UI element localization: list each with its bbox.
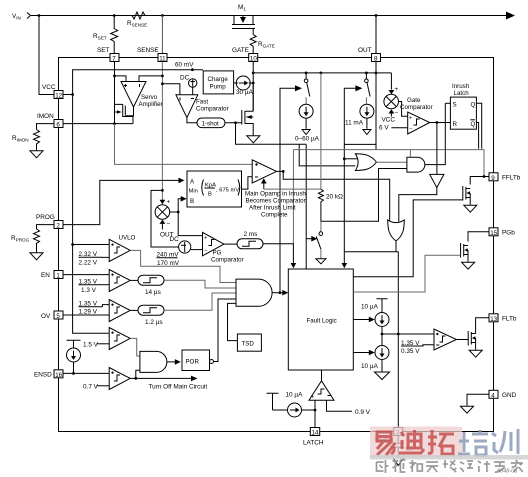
svg-text:+: + <box>204 236 207 242</box>
ground RPROG <box>30 253 43 260</box>
wire SET pin internal drop <box>114 62 116 124</box>
svg-text:PG: PG <box>213 249 222 256</box>
svg-text:OUT: OUT <box>358 47 372 54</box>
svg-text:Fast: Fast <box>196 99 208 106</box>
wire gate comp output to latch R <box>430 122 451 124</box>
ground arrow below CT <box>393 458 404 466</box>
pin 7 SET <box>110 54 119 62</box>
svg-text:ENSD: ENSD <box>34 372 52 379</box>
svg-text:8: 8 <box>374 56 378 63</box>
wire fault logic arrow to 10uA source <box>353 319 369 321</box>
transistor FFLTb pulldown <box>463 186 470 205</box>
wire OUT pin 8 top <box>375 16 377 54</box>
wire and2 output up to latch S <box>425 103 445 164</box>
svg-text:LATCH: LATCH <box>303 440 324 447</box>
svg-text:10 µA: 10 µA <box>361 363 379 370</box>
op-amp UVLO comparator <box>109 235 135 262</box>
wire fault logic arrow to 10uA lower <box>353 352 369 354</box>
svg-text:9: 9 <box>491 175 495 182</box>
svg-text:0.35 V: 0.35 V <box>401 348 420 355</box>
current source 0-60uA <box>299 104 313 118</box>
svg-text:15: 15 <box>490 230 497 237</box>
wire latch Q output down <box>476 103 481 148</box>
op-amp servo amplifier <box>121 82 163 109</box>
wire PROG pin to Min A input <box>63 180 180 224</box>
wire IMON pin to FET <box>63 123 115 125</box>
box fault logic <box>288 269 353 370</box>
svg-text:+: + <box>395 86 399 93</box>
multiplier current sense <box>155 199 170 229</box>
OR gate or2 pointing down <box>388 220 405 241</box>
node 10uA tbar upper <box>377 299 388 312</box>
wire VIN to VCC pin 12 <box>39 16 54 95</box>
op-amp fast comparator <box>176 95 229 118</box>
pin 15 PGb <box>489 228 498 236</box>
svg-text:OV: OV <box>41 313 51 320</box>
transistor internal sense FET <box>115 104 134 124</box>
svg-text:−: − <box>395 110 399 117</box>
svg-text:Comparator: Comparator <box>400 104 433 111</box>
svg-text:B: B <box>208 192 212 198</box>
wire servo right input from SENSE <box>139 76 162 82</box>
wire VCC pin junction <box>63 94 73 96</box>
svg-text:After Inrush Limit: After Inrush Limit <box>249 205 296 212</box>
wire control arrow into switch <box>280 88 296 292</box>
wire 1shot line down to switch control <box>236 123 307 145</box>
svg-text:2.22 V: 2.22 V <box>79 259 98 266</box>
transistor gate pulldown FET <box>242 83 253 136</box>
svg-text:0.7 V: 0.7 V <box>83 383 99 390</box>
switch TSD pull with open triangle <box>316 232 326 264</box>
svg-text:5: 5 <box>56 313 60 320</box>
svg-text:IMON: IMON <box>37 113 54 120</box>
ground FFLTb <box>464 205 477 212</box>
box charge pump <box>203 71 233 94</box>
svg-text:2: 2 <box>56 223 60 230</box>
pin 4 GND <box>489 390 498 398</box>
wire servo output to gate of internal FET <box>126 107 134 116</box>
svg-text:B: B <box>190 198 194 205</box>
svg-text:1-shot: 1-shot <box>202 121 219 128</box>
wire inrush ctl vertical to fault logic <box>305 144 307 269</box>
svg-text:Amplifier: Amplifier <box>139 101 163 108</box>
wire sense branch to DC 240mV source <box>151 190 179 247</box>
pin 11 SENSE <box>158 54 167 62</box>
wire fast comp left input from SENSE <box>162 84 180 95</box>
svg-text:11: 11 <box>159 56 166 63</box>
watermark char tuo <box>428 430 454 454</box>
svg-text:+: + <box>409 115 412 121</box>
wire small AND to POR arrow <box>167 361 176 363</box>
wire 11mA ctl tee to OUT vertical <box>344 143 375 145</box>
wire UVLO output to big AND in1 <box>130 250 236 282</box>
wire 20k line to TSD switch contact <box>320 221 322 232</box>
wire enable arrow into main opamp <box>263 183 265 190</box>
wire fault logic to FFLTb gate <box>353 200 463 277</box>
pin 8 OUT <box>372 54 381 62</box>
svg-text:SENSE: SENSE <box>137 47 159 54</box>
svg-text:UVLO: UVLO <box>119 235 136 242</box>
wire ENSD comp output and turnoff arrow <box>130 377 192 379</box>
svg-text:Servo: Servo <box>141 94 158 101</box>
svg-text:S: S <box>453 102 457 109</box>
wire EN pin to comparator <box>63 274 109 276</box>
box 1-shot <box>197 118 225 128</box>
svg-text:Comparator: Comparator <box>196 106 229 113</box>
wire PG comp to 2ms box <box>224 243 237 245</box>
svg-text:−: − <box>409 127 412 133</box>
svg-text:Gate: Gate <box>407 97 421 104</box>
wire OV pin to comparator minus <box>63 314 109 316</box>
wire OV comp to 1.2us <box>130 309 138 311</box>
current source ENSD pullup <box>67 348 81 362</box>
wire multiplier output to B input <box>170 199 203 236</box>
svg-text:Q: Q <box>471 102 476 109</box>
current source 10uA upper <box>375 313 389 327</box>
wire gray inrush-done line y149.5 <box>293 150 484 177</box>
svg-text:1.3 V: 1.3 V <box>81 287 97 294</box>
pin 16 ENSD <box>54 370 63 378</box>
wire timer vertical from or2 <box>397 252 399 428</box>
multiplier gate drive summer <box>382 73 399 124</box>
switch inrush current select <box>304 73 309 104</box>
ground below pulldown FET <box>247 136 260 143</box>
svg-text:VCC: VCC <box>382 117 396 124</box>
current source 10uA lower <box>375 346 389 360</box>
op-amp timer comparator pointing up <box>309 381 334 401</box>
capacitor CT <box>393 436 404 458</box>
svg-text:60 mV: 60 mV <box>175 62 194 69</box>
pin 14 LATCH <box>310 428 319 436</box>
svg-text:TSD: TSD <box>242 341 255 348</box>
wire fault logic to timer comparator <box>321 370 323 381</box>
wire latch S input <box>445 102 450 104</box>
svg-text:Becomes Comparator: Becomes Comparator <box>246 198 306 205</box>
box 14us pulse <box>138 275 164 285</box>
watermark slogan pseudo-glyphs <box>377 460 523 473</box>
wire fault logic to PGb gate <box>353 255 460 292</box>
wire top rail <box>31 15 507 17</box>
resistor RSET <box>111 16 118 54</box>
svg-text:DC: DC <box>170 236 180 243</box>
svg-text:10 µA: 10 µA <box>286 392 304 399</box>
svg-text:GATE: GATE <box>232 47 249 54</box>
op-amp EN comparator <box>109 270 130 292</box>
op-amp OV comparator <box>109 300 130 322</box>
svg-text:14: 14 <box>312 430 319 437</box>
wire 1.5V comp out to small AND <box>130 338 140 356</box>
svg-text:VCC: VCC <box>42 84 56 91</box>
wire multiplier to gate comparator plus <box>399 102 408 117</box>
wire ENSD comp to small AND in2 <box>136 370 140 378</box>
wire big AND output to fault logic <box>272 292 283 294</box>
svg-text:170 mV: 170 mV <box>157 260 180 267</box>
wire and2 top input from gray line <box>409 150 411 158</box>
resistor 20k with feed line <box>264 73 321 189</box>
latch inrush latch <box>450 83 476 129</box>
IC boundary box <box>59 58 494 432</box>
pin 2 PROG <box>54 221 63 229</box>
wire POR out up to big AND in4 <box>214 299 237 362</box>
wire GATE pin vertical <box>252 62 254 112</box>
svg-text:0.9 V: 0.9 V <box>355 409 371 416</box>
resistor RGATE <box>250 29 256 54</box>
svg-text:Comparator: Comparator <box>211 256 244 263</box>
wire TSD out up to big AND in5 <box>228 303 238 340</box>
wire PROG pin to RPROG <box>37 225 55 229</box>
wire FLTb comp out to MOSFET gate <box>456 339 468 341</box>
wire 10uA junction <box>381 327 383 346</box>
wire SENSE pin drop <box>161 16 163 54</box>
op-amp main opamp <box>245 160 306 219</box>
wire inverter out to OR2 and timer line <box>399 188 437 222</box>
wire ENSD pin to comparator <box>63 372 109 374</box>
svg-text:30 µA: 30 µA <box>236 89 254 96</box>
op-amp 0.7V ENSD comparator <box>109 368 130 390</box>
wire servo + input <box>115 76 127 82</box>
pin 6 IMON <box>54 120 63 128</box>
svg-text:10 µA: 10 µA <box>361 304 379 311</box>
svg-text:Complete: Complete <box>261 212 288 219</box>
wire VCC down left column <box>72 95 74 245</box>
wire DC to PG comparator minus <box>191 249 203 251</box>
wire IMON pin to RIMON <box>37 124 55 130</box>
pin 1 EN <box>54 271 63 279</box>
pin 9 FFLTb <box>489 173 498 181</box>
svg-text:GND: GND <box>502 392 517 399</box>
wire 1.2us out to big AND in3 <box>164 293 236 310</box>
current source 11mA <box>360 104 374 118</box>
svg-text:4: 4 <box>491 392 495 399</box>
svg-text:1: 1 <box>56 273 60 280</box>
wire OR1 input1 <box>344 158 357 160</box>
wire Min output to main opamp minus <box>242 177 253 189</box>
wire OUT horizontal bus y73 <box>253 72 391 74</box>
op-amp gate comparator <box>400 97 433 134</box>
svg-text:FLTb: FLTb <box>502 316 517 323</box>
svg-text:PGb: PGb <box>502 230 515 237</box>
watermark char yi <box>377 432 395 456</box>
wire PGb pin to MOSFET drain <box>468 232 489 242</box>
current source 10uA timer <box>273 409 288 411</box>
svg-text:20 kΩ: 20 kΩ <box>326 194 343 201</box>
svg-text:8048-06: 8048-06 <box>497 469 518 475</box>
svg-text:16: 16 <box>55 372 62 379</box>
svg-text:7: 7 <box>112 56 116 63</box>
pin 3 TIMER <box>394 428 403 436</box>
svg-text:, 675 mV: , 675 mV <box>216 188 239 194</box>
OR gate or1 <box>355 154 376 171</box>
svg-text:6: 6 <box>56 122 60 129</box>
svg-text:POR: POR <box>186 359 200 366</box>
resistor RIMON <box>34 130 40 151</box>
wire VCC line down to 1.5V comp <box>73 245 109 334</box>
box Min(KpA/B, 675 mV) <box>187 171 242 207</box>
pin 10 GATE <box>249 54 258 62</box>
svg-text:R: R <box>453 121 458 128</box>
wire VCC line to UVLO plus <box>73 244 110 246</box>
svg-text:PROG: PROG <box>36 214 55 221</box>
pin 13 FLTb <box>489 314 498 322</box>
svg-text:+: + <box>167 199 171 206</box>
wire 60mV line <box>73 70 203 95</box>
wire GND pin to ground <box>467 394 489 406</box>
svg-text:−: − <box>167 221 171 228</box>
svg-text:EN: EN <box>41 272 50 279</box>
svg-text:1.2 µs: 1.2 µs <box>145 319 163 326</box>
svg-text:+: + <box>311 395 314 401</box>
wire OUT stub below multiplier <box>161 224 163 230</box>
box POR <box>182 350 210 371</box>
op-amp 1.5V comparator <box>109 328 130 350</box>
resistor RSENSE <box>128 12 149 19</box>
wire gray vertical from 2ms node <box>292 150 294 244</box>
svg-text:14 µs: 14 µs <box>145 289 161 296</box>
svg-text:−: − <box>204 248 207 254</box>
switch 11mA branch <box>365 73 371 104</box>
wire branch down to OR1 lower input <box>299 144 355 166</box>
svg-text:13: 13 <box>490 316 497 323</box>
wire OUT pin 8 internal vertical <box>375 62 377 150</box>
svg-text:Main Opamp in Inrush: Main Opamp in Inrush <box>245 191 306 198</box>
AND gate main enable <box>236 279 272 306</box>
node 0.9V reference <box>327 400 353 411</box>
watermark char xun <box>492 429 518 454</box>
svg-text:Charge: Charge <box>208 76 229 83</box>
watermark gray band <box>370 455 528 460</box>
wire timer comp left input to latch pin <box>302 400 315 427</box>
AND gate and2 <box>407 157 425 172</box>
wire EN comp to 14us <box>130 279 138 281</box>
wire DC source to fast comp <box>192 87 194 95</box>
svg-text:FFLTb: FFLTb <box>502 175 521 182</box>
svg-text:12: 12 <box>55 93 62 100</box>
transistor PGb pulldown <box>461 243 468 262</box>
wire FFLTb pin to MOSFET drain <box>470 177 489 185</box>
watermark char di <box>399 430 424 453</box>
wire or2 output to fault logic <box>344 241 398 264</box>
AND gate turn-off <box>140 351 167 372</box>
wire to FLTb comparator plus <box>382 333 434 335</box>
current source 30uA <box>234 82 238 84</box>
wire SENSE pin internal drop <box>161 62 163 201</box>
wire 14us out to big AND in2 <box>164 280 236 288</box>
wire main opamp out fanout <box>277 171 390 221</box>
wire 1-shot output <box>225 122 242 124</box>
svg-text:Q: Q <box>471 121 476 128</box>
svg-text:Latch: Latch <box>454 90 470 97</box>
wire OR1 output to AND2 <box>376 161 407 163</box>
svg-text:10: 10 <box>250 56 257 63</box>
svg-text:6 V: 6 V <box>379 125 389 132</box>
svg-text:1.5 V: 1.5 V <box>83 341 99 348</box>
box TSD <box>237 334 261 351</box>
ground PGb <box>462 262 475 269</box>
ground open triangle below lower 10uA <box>375 372 390 380</box>
svg-text:0–60 µA: 0–60 µA <box>295 136 320 143</box>
wire 1-shot from fast comp <box>187 118 197 123</box>
wire FLTb drain to pin 13 <box>476 318 489 334</box>
wire 2ms to fault logic arrow <box>263 244 293 264</box>
resistor RPROG <box>34 229 40 253</box>
pin 5 OV <box>54 311 63 319</box>
pin 12 VCC <box>54 91 63 99</box>
wire 20k bottom to AND2 input <box>321 169 407 222</box>
svg-text:Fault Logic: Fault Logic <box>307 318 337 325</box>
wire latch Qbar output down <box>476 123 478 149</box>
ground GND pin <box>461 406 474 413</box>
svg-text:Turn Off Main Circuit: Turn Off Main Circuit <box>149 384 208 391</box>
ground FLTb <box>469 350 482 357</box>
wire arrow into TSD switch <box>306 238 312 240</box>
op-amp FLTb comparator <box>434 329 456 350</box>
watermark pink background <box>370 427 462 458</box>
node tbar 10uA timer <box>267 393 279 410</box>
node 1.5V tbar and label <box>67 340 81 348</box>
transistor FLTb pulldown <box>468 331 475 350</box>
svg-text:Min: Min <box>189 189 198 195</box>
watermark char pei <box>458 430 488 455</box>
wire IMON down and right to main opamp <box>115 124 253 165</box>
buffer inverter down <box>436 123 438 175</box>
ground RIMON <box>30 151 43 158</box>
svg-text:Pump: Pump <box>210 84 227 91</box>
svg-text:DC: DC <box>180 75 190 82</box>
svg-text:SET: SET <box>97 47 110 54</box>
op-amp PG comparator <box>203 232 244 263</box>
wire control arrow into 11mA switch <box>344 88 356 252</box>
svg-text:11 mA: 11 mA <box>345 120 364 127</box>
box 1.2us pulse <box>138 305 164 315</box>
svg-text:2 ms: 2 ms <box>244 231 258 238</box>
